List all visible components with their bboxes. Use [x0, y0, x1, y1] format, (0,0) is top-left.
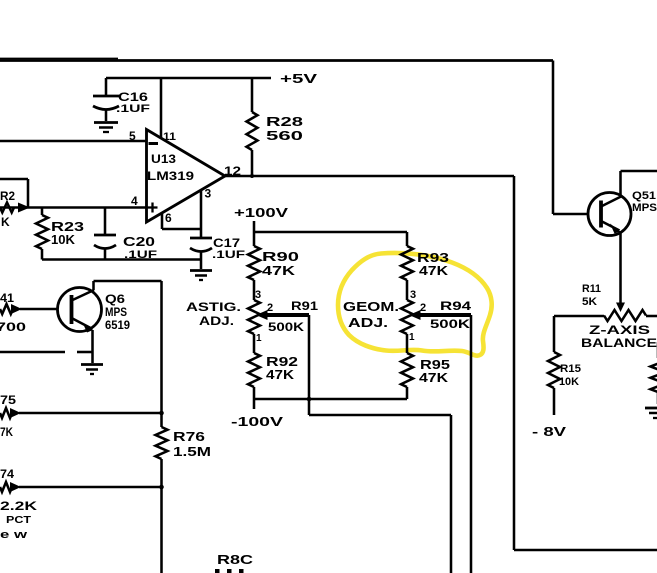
svg-text:K: K: [1, 215, 10, 229]
capacitor C17: [190, 238, 212, 260]
svg-text:2: 2: [420, 302, 426, 314]
svg-text:R11: R11: [582, 283, 601, 295]
pin 3 R91: [255, 289, 261, 301]
value R2x label: [0, 189, 15, 229]
svg-text:47K: 47K: [419, 263, 449, 278]
pin 11: [161, 78, 176, 143]
label GEOM ADJ: [343, 300, 399, 330]
value R11 label: [582, 283, 601, 308]
pin 1 R94: [409, 332, 415, 343]
svg-text:2: 2: [267, 302, 273, 314]
svg-text:MPS: MPS: [632, 202, 657, 214]
svg-text:6: 6: [165, 211, 172, 225]
wiper R11: [616, 303, 625, 313]
value R15 label: [559, 363, 581, 388]
value R23 label: [51, 219, 84, 247]
svg-text:Z-AXIS: Z-AXIS: [589, 325, 651, 337]
value R93 label: [417, 250, 449, 278]
wiper R94: [409, 310, 471, 573]
svg-text:5: 5: [129, 129, 136, 143]
svg-text:10K: 10K: [559, 376, 579, 388]
svg-text:700: 700: [0, 320, 26, 334]
svg-text:LM319: LM319: [147, 169, 194, 183]
svg-text:R8C: R8C: [217, 553, 253, 567]
ground for Q6: [81, 365, 103, 375]
value Q6 label: [105, 292, 130, 332]
value R95 label: [419, 357, 450, 385]
svg-text:PCT: PCT: [6, 514, 32, 526]
resistor R75 (left edge, partial): [0, 408, 164, 418]
value R91 label: [268, 299, 318, 334]
svg-text:ADJ.: ADJ.: [348, 316, 388, 330]
svg-text:MPS: MPS: [105, 305, 127, 319]
pin 2 R91: [267, 302, 273, 314]
svg-text:75: 75: [0, 393, 16, 407]
svg-text:41: 41: [0, 291, 14, 305]
resistor R92: [248, 353, 260, 399]
svg-text:+100V: +100V: [234, 205, 288, 220]
value R41 label: [0, 291, 26, 334]
svg-text:R76: R76: [173, 429, 205, 444]
value R90 label: [262, 249, 299, 278]
junction wiperA crossing: [307, 397, 312, 402]
svg-text:3: 3: [410, 289, 416, 301]
svg-text:1: 1: [409, 332, 415, 343]
highlighter circle around GEOM ADJ: [338, 253, 492, 356]
svg-text:C17: C17: [213, 236, 240, 250]
node +5V rail: [106, 77, 271, 80]
svg-text:.1UF: .1UF: [212, 249, 245, 261]
svg-text:GEOM.: GEOM.: [343, 300, 399, 314]
node -8V: [532, 424, 566, 439]
svg-text:- 8V: - 8V: [532, 424, 566, 439]
svg-text:BALANCE: BALANCE: [581, 338, 657, 350]
svg-text:47K: 47K: [266, 367, 295, 382]
resistor R76: [156, 427, 168, 459]
resistor R2x (left edge, partial): [0, 203, 30, 213]
svg-text:2.2K: 2.2K: [0, 499, 37, 513]
svg-text:Q6: Q6: [105, 292, 125, 306]
value R94 label: [430, 299, 471, 331]
ground for C16: [94, 123, 118, 133]
svg-text:4: 4: [131, 194, 138, 208]
svg-text:R2: R2: [0, 189, 15, 203]
svg-text:.1UF: .1UF: [116, 103, 150, 115]
svg-text:500K: 500K: [268, 320, 304, 334]
wire Q6 collector bus down: [160, 281, 163, 573]
resistor R41 (left edge, partial): [0, 304, 58, 314]
pin 2 R94: [420, 302, 426, 314]
value R75 label: [0, 393, 16, 439]
svg-text:500K: 500K: [430, 317, 470, 331]
resistor R93: [401, 232, 413, 300]
pin 12 output: [224, 164, 241, 178]
capacitor C20: [94, 208, 116, 260]
wire Q5 emitter: [619, 231, 622, 303]
wire U13 output to right edge: [225, 176, 657, 550]
pin 3 stub: [201, 187, 212, 238]
svg-text:47K: 47K: [419, 370, 449, 385]
svg-text:R91: R91: [291, 299, 318, 313]
svg-text:3: 3: [205, 187, 212, 201]
wire Q5 collector: [621, 171, 657, 197]
svg-text:6519: 6519: [105, 318, 130, 332]
value R92 label: [266, 354, 298, 382]
label R8C: [215, 553, 253, 573]
potentiometer R94: [401, 300, 413, 353]
svg-text:3: 3: [255, 289, 261, 301]
svg-text:1: 1: [256, 333, 262, 344]
svg-text:R94: R94: [440, 299, 471, 313]
svg-text:ASTIG.: ASTIG.: [186, 302, 241, 314]
potentiometer R91: [248, 300, 260, 353]
label ASTIG ADJ: [186, 302, 241, 328]
wire analog ground bus: [42, 258, 201, 261]
svg-text:ADJ.: ADJ.: [199, 316, 234, 328]
svg-text:10K: 10K: [51, 232, 76, 247]
svg-text:e w: e w: [0, 529, 28, 541]
pin 1 R91: [256, 333, 262, 344]
value R74 label: [0, 467, 37, 541]
resistor R90: [248, 232, 260, 300]
transistor Q5: [588, 193, 631, 236]
ground for C17: [190, 260, 212, 281]
pin 3 R94: [410, 289, 416, 301]
wire to Q6 emitter (left edge): [0, 351, 93, 354]
value +5V: [280, 71, 318, 86]
junction R28-output: [250, 174, 254, 178]
svg-text:47K: 47K: [262, 263, 296, 278]
svg-text:U13: U13: [151, 152, 176, 166]
ground right edge (partial): [645, 408, 657, 418]
svg-text:Q51: Q51: [632, 190, 656, 202]
value C20 label: [123, 234, 157, 261]
svg-text:5K: 5K: [582, 296, 597, 308]
node +100V: [234, 205, 407, 232]
plus sign U13: [148, 203, 158, 213]
wiper R91: [256, 310, 451, 573]
label Z-AXIS BALANCE: [581, 325, 657, 350]
svg-text:7K: 7K: [0, 425, 13, 439]
capacitor C16: [93, 78, 119, 121]
potentiometer R11: [554, 310, 657, 321]
pin 5 wire (inverting input): [0, 129, 147, 143]
svg-text:C20: C20: [123, 234, 155, 249]
svg-text:+5V: +5V: [280, 71, 318, 86]
pin 6 stub: [162, 211, 201, 229]
wire main top bus: [0, 59, 553, 61]
resistor R15: [548, 316, 560, 415]
svg-text:R28: R28: [266, 114, 303, 129]
svg-text:11: 11: [163, 131, 176, 143]
value C16 label: [116, 90, 150, 115]
svg-text:R15: R15: [560, 363, 581, 375]
svg-text:1.5M: 1.5M: [173, 444, 211, 459]
minus sign U13: [149, 142, 159, 145]
value U13 label: [147, 152, 194, 183]
svg-text:560: 560: [266, 128, 303, 143]
node -100V: [231, 399, 407, 429]
value R28 label: [266, 114, 303, 143]
resistor R95: [401, 353, 413, 399]
resistor right edge (partial): [651, 342, 657, 404]
value R76 label: [173, 429, 211, 459]
transistor Q6: [58, 288, 102, 333]
svg-text:R90: R90: [262, 249, 299, 264]
wire left L into pin4 node: [0, 179, 28, 208]
svg-text:C16: C16: [118, 90, 148, 104]
value C17 label: [212, 236, 245, 261]
svg-text:-100V: -100V: [231, 414, 283, 429]
pin 4 wire (non-inverting input): [0, 194, 147, 208]
op-amp U13: [147, 130, 226, 223]
wire Q6 emitter: [91, 330, 94, 363]
value Q5 label: [632, 190, 657, 214]
resistor R23: [36, 208, 48, 260]
wire Q6 collector: [94, 281, 162, 290]
resistor R74 (left edge, partial): [0, 482, 164, 492]
wire top bus drop to Q5 base: [553, 61, 589, 215]
svg-text:74: 74: [0, 467, 14, 481]
resistor R28: [247, 78, 258, 176]
